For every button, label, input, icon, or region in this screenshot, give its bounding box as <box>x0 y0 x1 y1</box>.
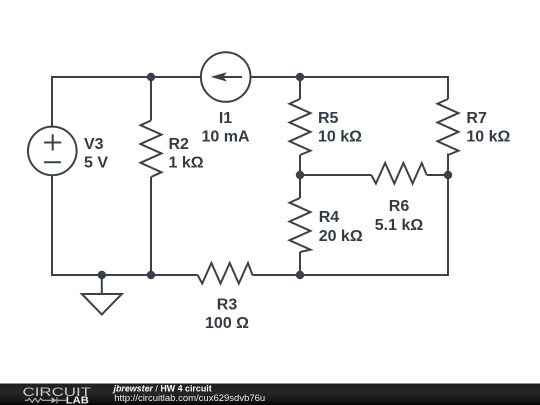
label R4 20 kOhm <box>319 209 363 245</box>
footer url <box>114 393 265 404</box>
wire R4 bottom lead <box>299 252 301 275</box>
svg-text:10 mA: 10 mA <box>201 129 249 146</box>
junction node R2 bottom <box>147 271 155 279</box>
wire bottom-right (R3 to R7 bottom corner and up to R7) <box>252 154 448 276</box>
label V3 5 V <box>84 136 108 172</box>
svg-text:1 kΩ: 1 kΩ <box>169 155 204 172</box>
wire bottom-left (V3 bottom stem to R3) <box>52 175 198 275</box>
svg-text:I1: I1 <box>219 110 232 127</box>
resistor R6 <box>371 163 426 184</box>
junction node V3/I1 top at R2 <box>147 73 155 81</box>
svg-text:V3: V3 <box>84 136 104 153</box>
label R7 10 kOhm <box>466 110 510 146</box>
svg-text:100 Ω: 100 Ω <box>205 315 249 332</box>
wire R5 bottom lead <box>299 155 301 175</box>
voltage source V3 <box>28 127 77 176</box>
svg-text:jbrewster / HW 4 circuit: jbrewster / HW 4 circuit <box>113 383 212 393</box>
svg-text:R3: R3 <box>217 296 238 313</box>
wire R4 top lead <box>299 175 301 198</box>
svg-text:LAB: LAB <box>66 395 89 405</box>
label R2 1 kOhm <box>169 136 204 172</box>
svg-text:5 V: 5 V <box>84 155 108 172</box>
svg-text:5.1 kΩ: 5.1 kΩ <box>375 217 424 234</box>
svg-text:http://circuitlab.com/cux629sd: http://circuitlab.com/cux629sdvb76u <box>114 393 265 404</box>
resistor R3 <box>198 263 253 284</box>
CircuitLab logo resistor squiggle and diode <box>25 397 66 403</box>
svg-text:10 kΩ: 10 kΩ <box>318 129 362 146</box>
junction node R6/R7 <box>444 171 452 179</box>
wire top-right (I1 to R7 top corner and R7 top lead) <box>251 77 449 99</box>
resistor R5 <box>290 99 311 155</box>
svg-text:R6: R6 <box>389 198 410 215</box>
junction node R5/R4/R6 <box>296 171 304 179</box>
wire middle (R4 top to R6 left) <box>300 174 371 176</box>
svg-text:R5: R5 <box>318 110 339 127</box>
label R5 10 kOhm <box>318 110 362 146</box>
svg-text:10 kΩ: 10 kΩ <box>466 129 510 146</box>
CircuitLab logo LAB text <box>66 395 89 405</box>
footer bar <box>0 384 540 405</box>
resistor R7 <box>438 99 459 155</box>
label R3 100 Ohm <box>205 296 249 332</box>
wire R6 right lead to R7 <box>427 174 448 176</box>
svg-text:R2: R2 <box>169 136 190 153</box>
current source I1 <box>201 52 251 102</box>
wire R5 top lead <box>299 77 301 99</box>
footer title jbrewster / HW 4 circuit <box>113 383 212 393</box>
resistor R4 <box>290 198 311 252</box>
junction node R5 top <box>296 73 304 81</box>
junction node ground <box>98 271 106 279</box>
CircuitLab logo CIRCUIT text <box>23 385 92 399</box>
wire R2 bottom lead <box>150 177 152 275</box>
svg-text:R4: R4 <box>319 209 340 226</box>
resistor R2 <box>141 121 162 178</box>
svg-text:20 kΩ: 20 kΩ <box>319 228 363 245</box>
wire R2 top lead <box>150 77 152 121</box>
label R6 5.1 kOhm <box>375 198 424 234</box>
junction node R4 bottom <box>296 271 304 279</box>
ground <box>82 275 122 315</box>
wire top-left (V3 top to I1) <box>52 77 202 127</box>
label I1 10 mA <box>201 110 249 146</box>
svg-text:R7: R7 <box>466 110 487 127</box>
